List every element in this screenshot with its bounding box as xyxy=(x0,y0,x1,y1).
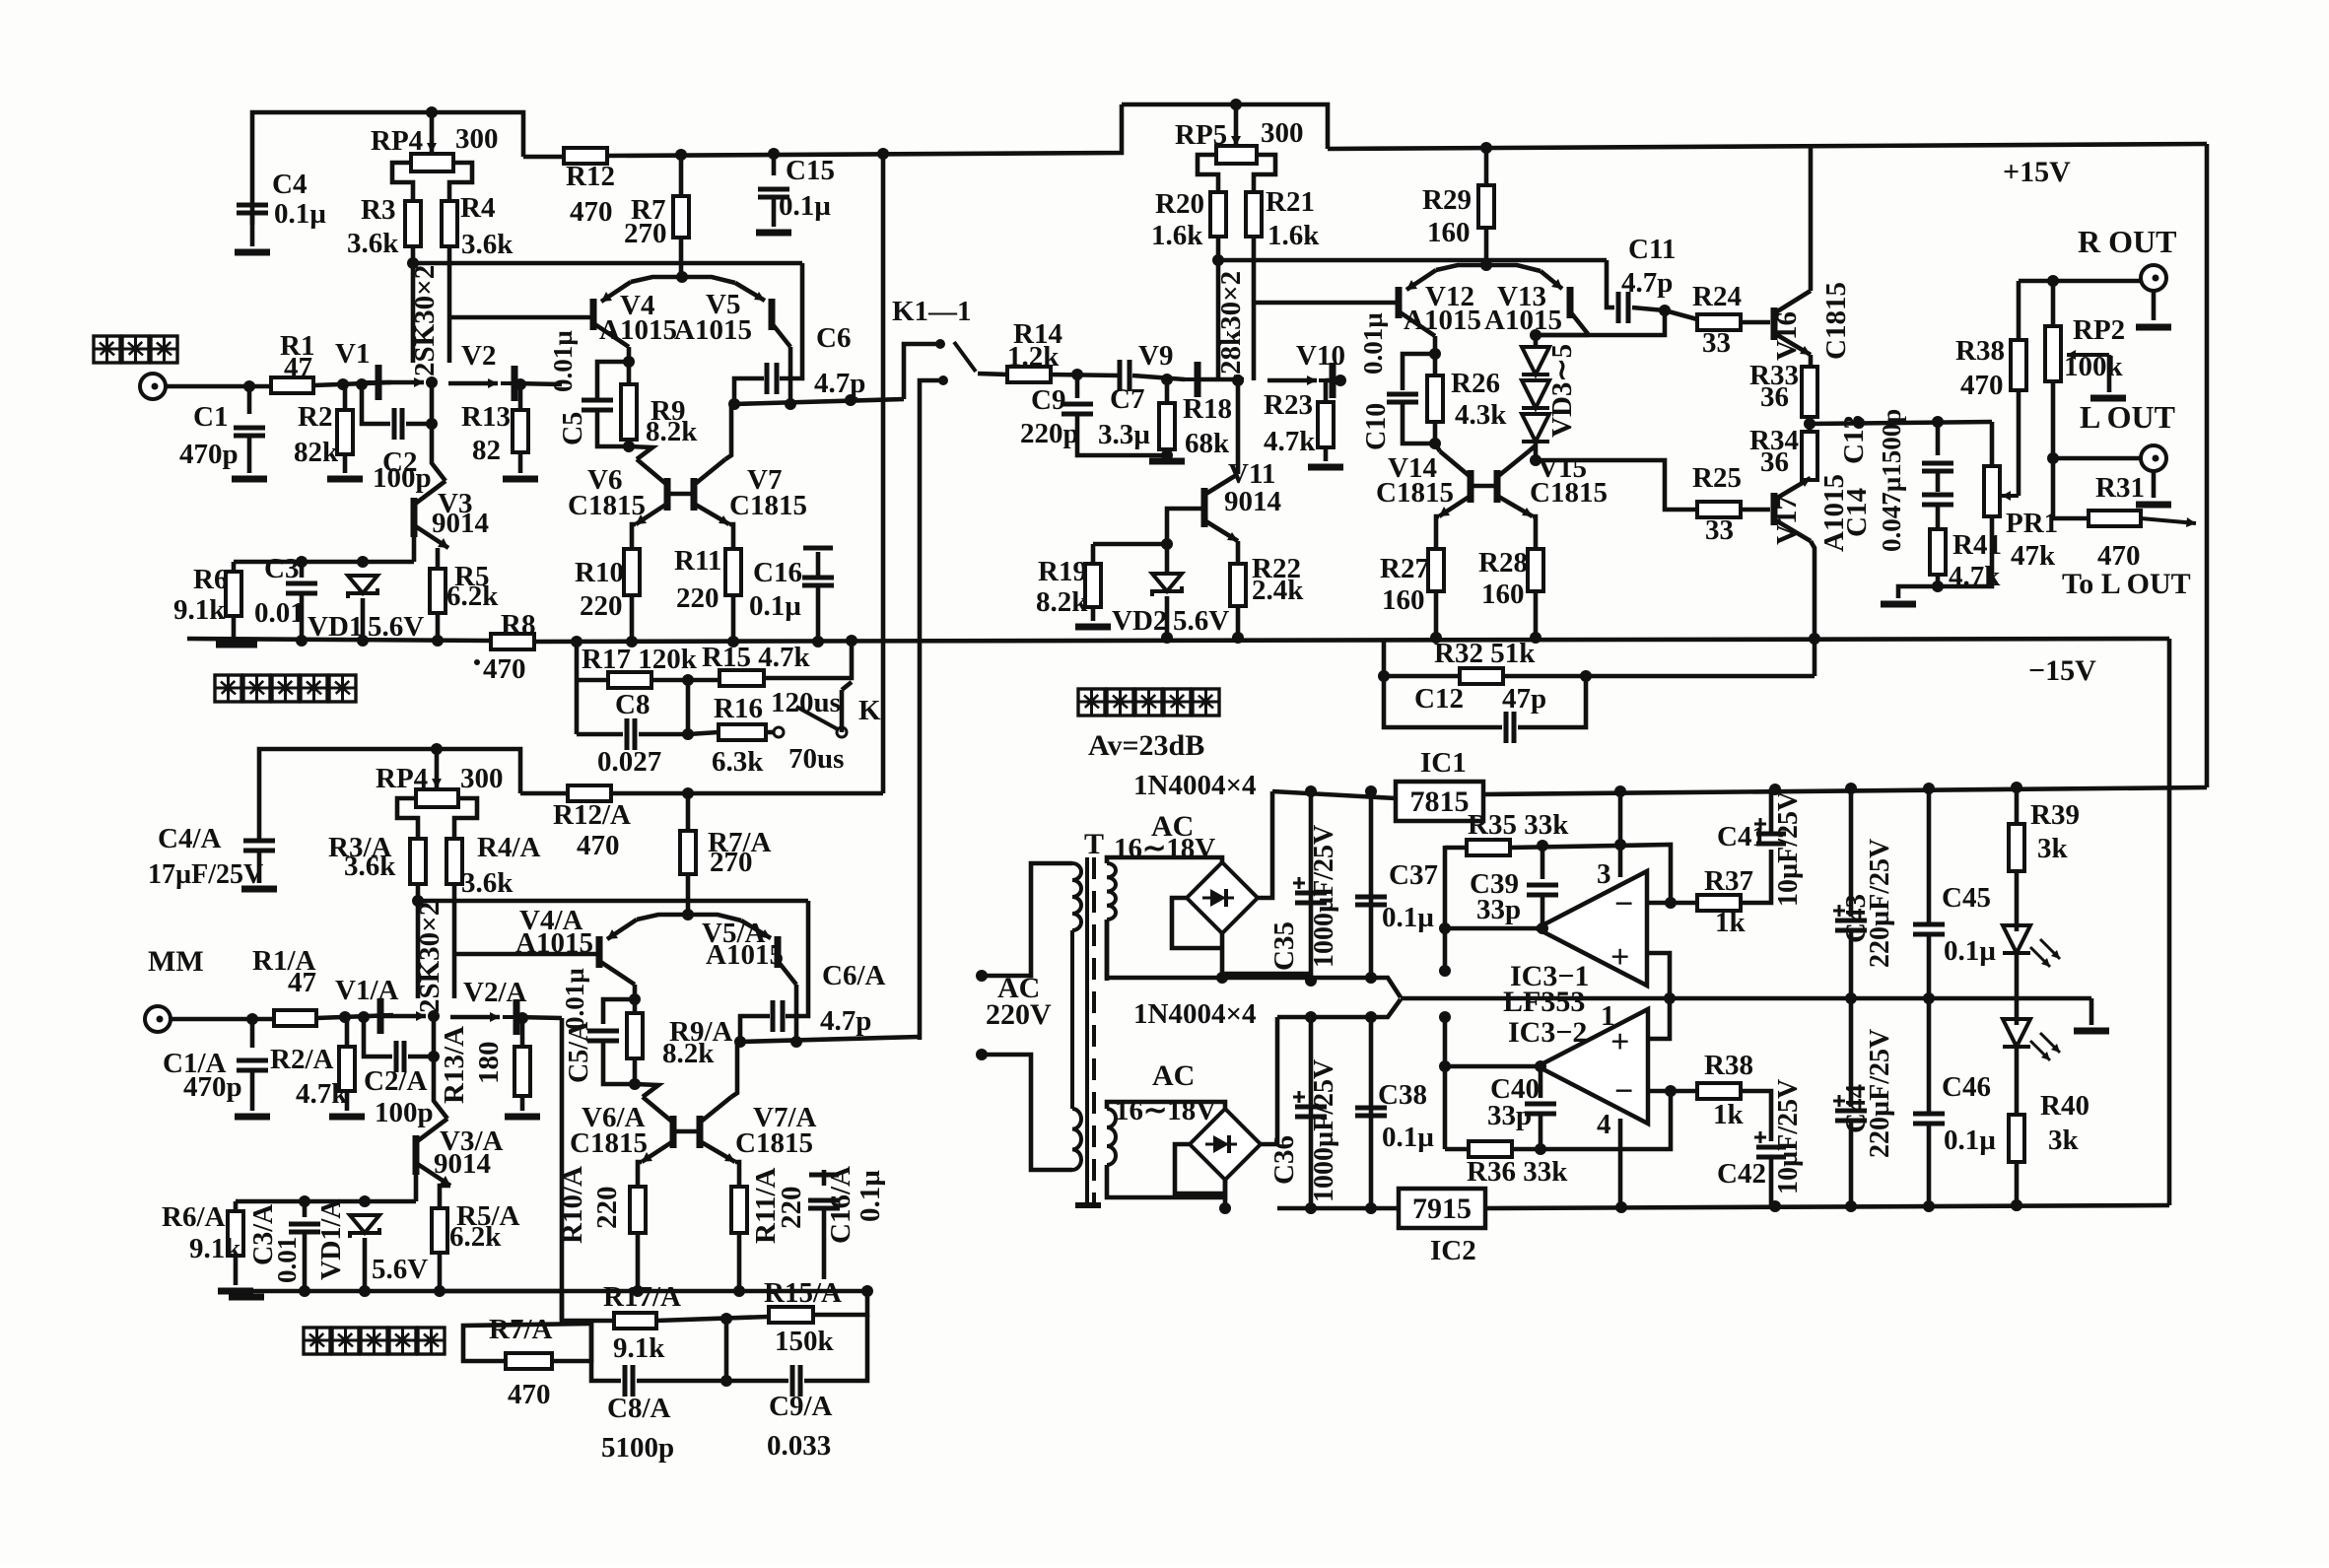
node xyxy=(1923,1200,1935,1212)
wire xyxy=(1382,639,1387,676)
svg-text:C13: C13 xyxy=(1838,415,1870,464)
node xyxy=(357,635,369,647)
svg-text:C8: C8 xyxy=(615,689,650,720)
svg-text:9014: 9014 xyxy=(434,1148,491,1180)
resistor R15 xyxy=(719,670,764,686)
svg-text:R4/A: R4/A xyxy=(477,832,541,863)
wire xyxy=(1309,1017,1314,1208)
wire xyxy=(1671,901,1697,906)
svg-text:R8: R8 xyxy=(501,609,535,641)
wire xyxy=(1529,445,1536,451)
resistor R7/A xyxy=(680,831,696,874)
ground xyxy=(1075,624,1111,631)
node xyxy=(1365,972,1377,984)
wire xyxy=(416,884,421,998)
wire xyxy=(523,155,564,160)
wire xyxy=(2152,291,2157,320)
node xyxy=(428,1051,440,1062)
wire xyxy=(378,380,424,385)
svg-text:3.6k: 3.6k xyxy=(344,851,396,882)
wire xyxy=(1267,378,1317,383)
wire xyxy=(1510,845,1671,903)
node xyxy=(720,1375,732,1387)
resistor R10/A xyxy=(630,1187,646,1233)
diode VD4 xyxy=(1522,380,1549,408)
node xyxy=(623,441,635,452)
node xyxy=(1665,897,1677,909)
svg-text:150k: 150k xyxy=(775,1326,835,1357)
svg-text:0.1µ: 0.1µ xyxy=(749,590,801,622)
node xyxy=(1809,633,1820,645)
ground xyxy=(756,230,791,237)
transistor V10 xyxy=(1319,363,1333,398)
ground xyxy=(2136,502,2171,509)
wire xyxy=(603,1042,635,1084)
wire xyxy=(2205,144,2210,787)
wire xyxy=(406,383,432,424)
svg-text:R40: R40 xyxy=(2040,1090,2089,1122)
node xyxy=(1305,975,1317,987)
svg-text:0.033: 0.033 xyxy=(767,1430,831,1462)
svg-text:R23: R23 xyxy=(1264,389,1313,421)
node xyxy=(2047,275,2059,287)
capacitor C45 xyxy=(1913,924,1945,934)
node xyxy=(1378,670,1390,682)
svg-text:C37: C37 xyxy=(1389,859,1438,891)
wire xyxy=(1533,516,1536,549)
svg-text:4.3k: 4.3k xyxy=(1455,399,1507,431)
wire xyxy=(430,112,435,153)
wire xyxy=(440,1289,867,1294)
capacitor C6 xyxy=(767,363,777,394)
wire xyxy=(1539,1066,1543,1098)
resistor R36 xyxy=(1469,1141,1512,1157)
resistor R1/A xyxy=(274,1010,316,1026)
wire xyxy=(686,874,691,917)
wire xyxy=(1107,1165,1225,1197)
svg-text:1.2k: 1.2k xyxy=(1007,341,1060,373)
svg-text:R37: R37 xyxy=(1704,865,1753,897)
capacitor C2 xyxy=(394,408,402,440)
wire xyxy=(2015,1162,2020,1205)
wire xyxy=(1401,996,2091,1001)
wire xyxy=(1172,898,1222,948)
wire xyxy=(438,1253,443,1291)
label xianlu-fangdaqi xyxy=(1078,689,1219,716)
svg-text:T: T xyxy=(1084,828,1104,860)
svg-text:33p: 33p xyxy=(1487,1100,1532,1131)
svg-text:C9: C9 xyxy=(1031,384,1065,416)
wire xyxy=(392,163,413,201)
node xyxy=(1665,1085,1677,1097)
bridge rectifier D2 xyxy=(1190,1109,1261,1180)
svg-text:R3: R3 xyxy=(361,194,395,226)
resistor R6 xyxy=(226,572,241,616)
wire xyxy=(1107,857,1222,863)
wire xyxy=(813,1291,867,1315)
node xyxy=(1161,632,1173,644)
svg-text:V1: V1 xyxy=(335,338,370,370)
svg-text:16∼18V: 16∼18V xyxy=(1115,1095,1216,1126)
wire xyxy=(1324,380,1329,402)
svg-text:R31: R31 xyxy=(2095,472,2145,504)
svg-text:RP4: RP4 xyxy=(371,125,423,157)
capacitor C16/A xyxy=(808,1200,840,1208)
wire xyxy=(1236,375,1241,474)
wire xyxy=(1384,676,1502,727)
capacitor C10 xyxy=(1387,394,1418,402)
wire xyxy=(822,1210,827,1279)
node xyxy=(1232,632,1244,644)
wire xyxy=(448,381,498,386)
wire xyxy=(2089,998,2094,1025)
node xyxy=(682,674,694,686)
svg-text:82: 82 xyxy=(472,435,501,466)
resistor R40 xyxy=(2009,1115,2024,1162)
node xyxy=(1071,369,1083,380)
svg-text:C6: C6 xyxy=(816,322,851,354)
wire xyxy=(1091,544,1096,564)
svg-text:V2: V2 xyxy=(461,340,496,372)
capacitor C37 xyxy=(1355,897,1387,905)
wire xyxy=(1445,926,1537,931)
node xyxy=(426,418,438,430)
ground xyxy=(327,476,363,483)
node xyxy=(296,556,308,568)
resistor R27 xyxy=(1428,549,1444,591)
svg-text:R7/A: R7/A xyxy=(489,1314,553,1345)
wire xyxy=(2053,456,2141,461)
resistor R8 xyxy=(491,634,534,649)
node xyxy=(2011,782,2022,793)
svg-text:A1015: A1015 xyxy=(515,927,593,959)
transistor V14 xyxy=(1439,451,1471,516)
resistor R20 xyxy=(1210,192,1226,237)
wire xyxy=(303,1201,308,1217)
wire xyxy=(1938,516,1992,586)
wire xyxy=(520,1096,525,1111)
transformer secondary 2 xyxy=(1107,1109,1116,1165)
resistor R37 xyxy=(1697,895,1741,911)
svg-text:C41: C41 xyxy=(1717,821,1766,852)
node xyxy=(412,895,424,907)
transistor V6/A xyxy=(642,1097,673,1162)
node xyxy=(299,1285,310,1297)
svg-text:5100p: 5100p xyxy=(601,1432,674,1464)
wire xyxy=(1534,335,1539,347)
transistor V2 xyxy=(501,366,514,401)
wire xyxy=(418,899,808,904)
wire xyxy=(786,901,808,1016)
node xyxy=(428,1010,440,1022)
wire xyxy=(250,1019,255,1048)
node xyxy=(1365,1202,1377,1214)
transistor V7/A xyxy=(700,1097,735,1162)
wire xyxy=(1512,1091,1671,1149)
svg-text:3k: 3k xyxy=(2048,1125,2080,1156)
wire xyxy=(631,277,735,283)
wire xyxy=(560,1291,565,1321)
node xyxy=(1230,99,1242,110)
svg-text:Av=23dB: Av=23dB xyxy=(1088,729,1204,762)
wire xyxy=(2017,390,2021,496)
wire xyxy=(1369,1017,1374,1208)
svg-text:R2/A: R2/A xyxy=(270,1044,334,1075)
wire xyxy=(1741,320,1770,325)
resistor R31 xyxy=(2089,511,2141,526)
node xyxy=(1535,1060,1546,1072)
wire xyxy=(1536,460,1697,510)
capacitor C36 xyxy=(1293,1091,1327,1117)
resistor R12/A xyxy=(568,785,611,801)
svg-text:1000µF/25V: 1000µF/25V xyxy=(1309,1059,1339,1202)
wire xyxy=(881,157,886,793)
wire xyxy=(1165,544,1170,574)
resistor R9 xyxy=(621,384,637,440)
wire xyxy=(1107,920,1222,978)
resistor R17/A xyxy=(614,1313,656,1329)
wire xyxy=(516,1017,562,1018)
wire xyxy=(735,1162,739,1187)
wire xyxy=(448,315,591,320)
wire xyxy=(1443,1017,1448,1149)
wire xyxy=(1849,998,1854,1107)
svg-text:C1: C1 xyxy=(193,401,228,433)
wire xyxy=(412,517,417,562)
wire xyxy=(1236,606,1241,638)
svg-text:1.6k: 1.6k xyxy=(1267,220,1320,251)
terminal xyxy=(2141,445,2166,471)
wire xyxy=(679,238,684,279)
wire xyxy=(247,438,252,473)
wire xyxy=(1252,237,1257,380)
svg-text:0.1µ: 0.1µ xyxy=(779,190,831,222)
wire xyxy=(1433,336,1438,354)
svg-text:0.027: 0.027 xyxy=(597,746,661,778)
wire xyxy=(436,548,441,569)
node xyxy=(434,1285,445,1297)
node xyxy=(1365,1011,1377,1023)
terminal AC-top xyxy=(976,970,988,982)
node xyxy=(358,1011,370,1023)
resistor R24 xyxy=(1697,314,1741,330)
wire xyxy=(788,347,793,404)
wire xyxy=(1741,850,1771,903)
svg-text:C16/A: C16/A xyxy=(825,1166,856,1244)
wire xyxy=(740,1037,920,1042)
svg-text:0.1µ: 0.1µ xyxy=(1382,902,1434,933)
node xyxy=(516,1012,528,1024)
wire xyxy=(673,1129,700,1134)
wire xyxy=(300,562,305,578)
resistor R32 xyxy=(1460,668,1503,684)
label changtou-fangdaqi xyxy=(304,1328,445,1354)
svg-text:0.01µ: 0.01µ xyxy=(1358,312,1388,375)
svg-text:10µF/25V: 10µF/25V xyxy=(1773,1079,1804,1194)
transformer core bottom xyxy=(1075,1202,1101,1208)
wire xyxy=(2015,787,2020,824)
svg-text:220µF/25V: 220µF/25V xyxy=(1865,839,1895,968)
wire xyxy=(1433,422,1438,443)
svg-text:470: 470 xyxy=(1960,370,2004,401)
node xyxy=(426,376,438,388)
wire xyxy=(1175,1144,1225,1193)
svg-text:470: 470 xyxy=(577,830,620,861)
resistor R23 xyxy=(1318,402,1334,447)
svg-text:0.1µ: 0.1µ xyxy=(274,198,326,230)
svg-text:C9/A: C9/A xyxy=(769,1391,833,1422)
svg-text:R10: R10 xyxy=(575,557,624,588)
resistor R5 xyxy=(430,569,445,613)
wire xyxy=(2051,281,2056,326)
capacitor C4 xyxy=(237,205,268,213)
node xyxy=(675,149,687,161)
node xyxy=(1305,785,1317,797)
svg-text:1N4004×4: 1N4004×4 xyxy=(1133,770,1256,801)
svg-text:LF353: LF353 xyxy=(1503,986,1585,1018)
svg-text:C10: C10 xyxy=(1361,403,1392,450)
node xyxy=(1429,348,1441,360)
potentiometer RP5 xyxy=(1216,146,1257,164)
node xyxy=(676,271,688,283)
wire xyxy=(2015,871,2020,931)
svg-text:L OUT: L OUT xyxy=(2080,399,2175,435)
wire xyxy=(729,524,733,549)
wire xyxy=(232,1289,562,1294)
wire xyxy=(440,1186,450,1208)
svg-text:0.01µ: 0.01µ xyxy=(548,330,578,392)
wire xyxy=(1091,607,1096,621)
svg-text:160: 160 xyxy=(1481,579,1525,610)
node xyxy=(877,148,889,160)
svg-text:470p: 470p xyxy=(183,1071,242,1103)
svg-text:5.6V: 5.6V xyxy=(1173,605,1229,637)
svg-text:C5: C5 xyxy=(558,412,588,445)
capacitor C40 xyxy=(1525,1104,1556,1114)
node xyxy=(682,909,694,920)
wire xyxy=(1483,787,2207,794)
resistor R26 xyxy=(1427,375,1443,422)
wire xyxy=(686,680,691,734)
svg-text:V1/A: V1/A xyxy=(335,975,399,1006)
svg-text:C1815: C1815 xyxy=(1530,477,1608,509)
wire xyxy=(1258,791,1272,898)
node xyxy=(1769,1200,1781,1212)
wire xyxy=(740,1016,770,1042)
switch K1-1 xyxy=(935,339,945,349)
resistor R39 xyxy=(2009,824,2024,871)
wire xyxy=(234,560,414,565)
wire xyxy=(639,732,688,737)
wire xyxy=(1632,307,1665,310)
wire xyxy=(1541,846,1545,879)
svg-text:C15: C15 xyxy=(786,155,835,186)
wire xyxy=(518,452,523,473)
svg-text:A1015: A1015 xyxy=(1484,305,1562,336)
wire xyxy=(766,730,774,735)
transformer primary xyxy=(1072,863,1081,1170)
resistor R3/A xyxy=(410,839,426,884)
node xyxy=(1614,839,1626,851)
wire xyxy=(1309,791,1314,978)
switch K xyxy=(774,727,784,737)
svg-text:3.6k: 3.6k xyxy=(347,228,399,259)
node xyxy=(337,378,349,390)
node xyxy=(682,728,694,740)
svg-text:V16: V16 xyxy=(1771,311,1803,361)
ground xyxy=(505,1114,540,1121)
svg-text:A1015: A1015 xyxy=(1404,305,1481,336)
node xyxy=(1439,1011,1451,1023)
wire xyxy=(1471,484,1497,489)
wire xyxy=(166,384,271,389)
svg-text:36: 36 xyxy=(1760,381,1789,413)
svg-text:0.1µ: 0.1µ xyxy=(855,1170,886,1222)
capacitor C14 xyxy=(1922,495,1953,505)
capacitor C42 xyxy=(1754,1131,1786,1157)
svg-text:V17: V17 xyxy=(1771,496,1803,545)
wire xyxy=(1536,333,1589,338)
node xyxy=(1853,417,1865,429)
capacitor C7 xyxy=(1120,360,1130,391)
zener diode VD1 xyxy=(348,576,377,598)
wire xyxy=(1586,674,1815,679)
wire xyxy=(343,384,348,410)
svg-text:270: 270 xyxy=(624,218,667,249)
svg-text:R32 51k: R32 51k xyxy=(1434,638,1536,669)
resistor R7 xyxy=(673,196,689,238)
resistor R19 xyxy=(1085,564,1101,607)
svg-text:3: 3 xyxy=(1597,858,1611,890)
wire xyxy=(737,1233,742,1291)
ground xyxy=(232,476,267,483)
svg-text:R17 120k: R17 120k xyxy=(582,644,698,675)
wire xyxy=(1272,791,1396,798)
wire xyxy=(534,639,2169,642)
svg-text:4.7k: 4.7k xyxy=(1264,426,1316,457)
ground xyxy=(229,1294,264,1301)
transistor V11 xyxy=(1204,474,1238,541)
node xyxy=(728,398,740,410)
wire xyxy=(232,562,237,572)
capacitor C1/A xyxy=(237,1060,268,1070)
node xyxy=(407,257,419,269)
wire xyxy=(1445,846,1467,851)
resistor R15/A xyxy=(769,1307,813,1323)
wire xyxy=(361,598,366,639)
wire xyxy=(562,1018,591,1321)
svg-text:R19: R19 xyxy=(1038,556,1087,587)
node xyxy=(1923,992,1935,1004)
svg-text:0.047µ1500p: 0.047µ1500p xyxy=(1877,409,1906,552)
LED LED1 xyxy=(2003,925,2060,967)
transistor V5/A xyxy=(741,920,796,985)
node xyxy=(785,398,796,410)
svg-text:AC: AC xyxy=(1152,1059,1195,1092)
resistor R1 xyxy=(271,377,313,393)
svg-text:R13/A: R13/A xyxy=(439,1026,470,1104)
wire xyxy=(1936,422,1941,455)
svg-text:R15/A: R15/A xyxy=(764,1277,842,1309)
resistor R21 xyxy=(1246,192,1262,237)
node xyxy=(1932,580,1944,592)
svg-text:300: 300 xyxy=(455,123,499,155)
capacitor C46 xyxy=(1913,1114,1945,1124)
svg-text:C1815: C1815 xyxy=(1820,282,1852,360)
capacitor C8/A xyxy=(625,1365,633,1397)
node xyxy=(339,1011,351,1023)
svg-text:RP4: RP4 xyxy=(376,763,428,794)
